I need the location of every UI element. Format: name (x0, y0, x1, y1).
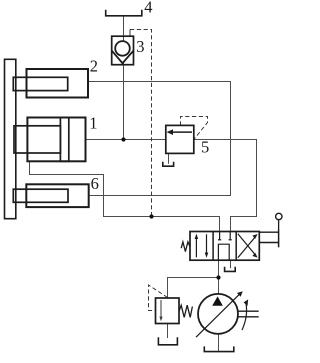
svg-text:5: 5 (201, 138, 209, 157)
svg-text:1: 1 (89, 114, 97, 133)
svg-text:4: 4 (144, 0, 152, 17)
svg-text:3: 3 (136, 37, 144, 56)
svg-text:2: 2 (90, 57, 98, 76)
svg-text:6: 6 (91, 174, 99, 193)
